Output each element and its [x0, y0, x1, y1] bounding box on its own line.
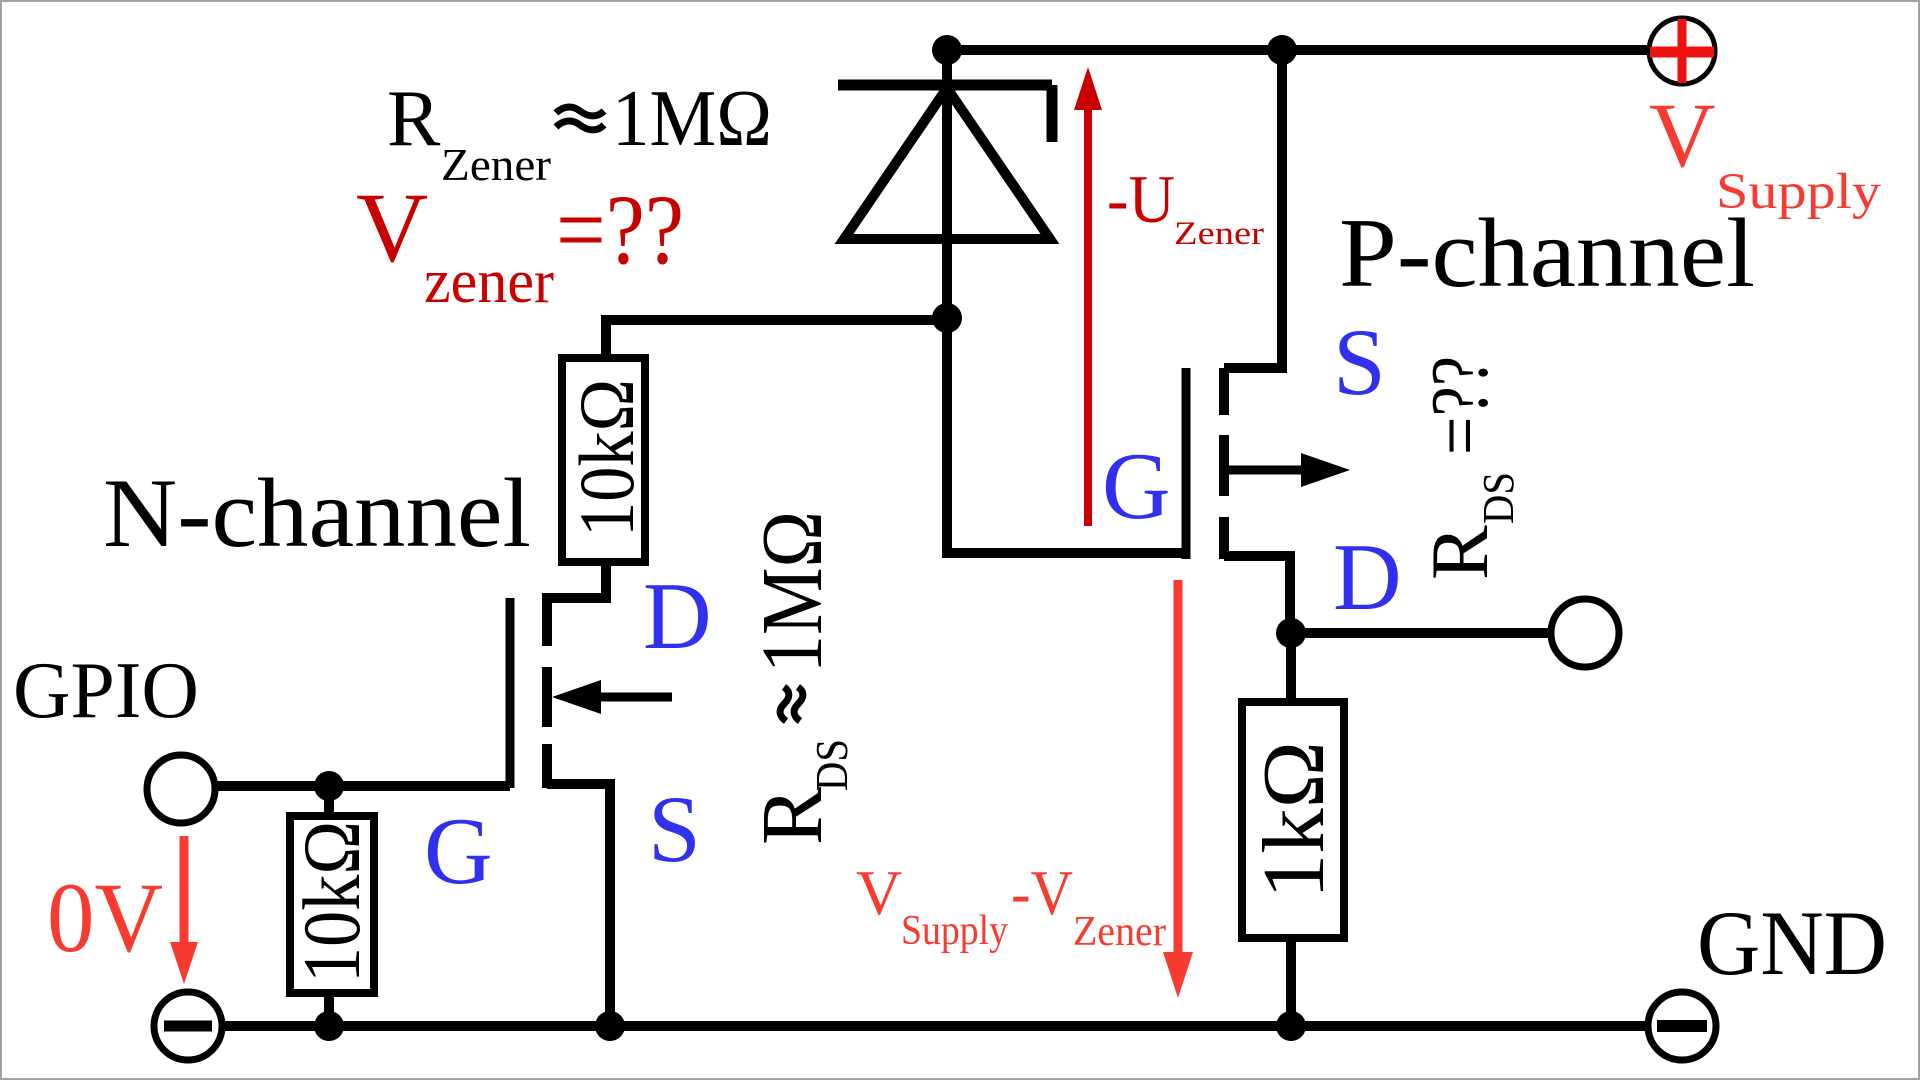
svg-text:P-channel: P-channel — [1339, 199, 1755, 308]
terminal: V_Supply plus circle — [1649, 18, 1715, 84]
N-MOSFET Q1: body arrow pointing into channel — [552, 680, 672, 714]
zener diode D1: anode triangle — [844, 88, 1050, 239]
svg-text:S: S — [648, 776, 701, 882]
svg-text:S: S — [1333, 309, 1386, 415]
wire: top supply rail — [947, 45, 1648, 55]
label R_DS=?? rotated — [1414, 356, 1523, 580]
svg-text:10kΩ: 10kΩ — [563, 379, 650, 537]
wire: junction to R2 top — [324, 786, 334, 816]
svg-text:R: R — [387, 75, 441, 163]
wire: R2 bottom to ground rail — [324, 993, 334, 1026]
resistor R2 10kOhm (gate pulldown): body — [290, 816, 374, 993]
label V_zener=?? — [356, 172, 684, 316]
svg-text:GPIO: GPIO — [13, 645, 199, 735]
wire: GPIO terminal to N-MOSFET gate — [215, 781, 510, 791]
resistor R3 value label 1kOhm — [1246, 741, 1343, 899]
svg-text:G: G — [424, 798, 493, 904]
label R_DS approx 1MOhm rotated — [743, 739, 857, 845]
wire: R1 top to zener node — [606, 320, 947, 356]
N-MOSFET Q1: channel dashed — [542, 593, 552, 788]
svg-text:D: D — [1333, 524, 1402, 630]
node: R3 at ground rail — [1276, 1011, 1306, 1041]
terminal: GPIO input circle — [147, 755, 215, 823]
label V_Supply-V_Zener — [856, 857, 1166, 955]
label V_Supply — [1649, 84, 1882, 220]
terminal: GND minus circle — [1648, 992, 1716, 1060]
terminal: output circle — [1551, 599, 1619, 667]
svg-text:R: R — [743, 787, 840, 845]
arrow: 0V GPIO voltage red down — [170, 836, 198, 984]
svg-text:=??: =?? — [1414, 356, 1505, 455]
wire: zener vertical from supply rail — [942, 50, 952, 318]
node: P-drain output junction — [1276, 618, 1306, 648]
svg-text:R: R — [1414, 525, 1505, 580]
svg-text:Zener: Zener — [441, 140, 551, 190]
P-MOSFET Q2: channel dashed — [1219, 368, 1229, 559]
wire: R1 bottom to N-MOSFET drain step — [547, 562, 606, 598]
node: N-source at ground rail — [595, 1011, 625, 1041]
svg-text:-V: -V — [1011, 857, 1073, 928]
resistor R1 10kOhm (N-drain pull-up): body — [562, 358, 645, 562]
wire: R3 bottom to ground rail — [1286, 938, 1296, 1026]
svg-text:=??: =?? — [556, 174, 684, 285]
svg-text:0V: 0V — [47, 862, 163, 973]
arrow: V_Supply minus V_Zener red down — [1163, 580, 1193, 998]
P-MOSFET Q2: drain step — [1224, 556, 1290, 633]
resistor R2 value label 10kOhm — [286, 821, 377, 983]
svg-text:DS: DS — [806, 739, 857, 791]
svg-text:D: D — [643, 563, 712, 669]
zener diode D1: cathode bar — [838, 85, 1052, 142]
N-MOSFET Q1: gate bar — [506, 598, 515, 788]
wire: ground rail — [222, 1021, 1651, 1031]
svg-text:DS: DS — [1474, 472, 1523, 524]
node: zener anode junction — [932, 303, 962, 333]
terminal: GPIO-side minus circle — [154, 992, 222, 1060]
svg-text:V: V — [1649, 84, 1715, 186]
node: gate wire / pulldown junction — [314, 771, 344, 801]
svg-text:Supply: Supply — [901, 908, 1008, 954]
resistor R1 value label 10kOhm — [563, 379, 650, 537]
svg-text:zener: zener — [424, 248, 554, 316]
svg-text:Supply: Supply — [1716, 164, 1882, 220]
svg-text:G: G — [1102, 433, 1171, 539]
P-MOSFET Q2: source step up to supply rail — [1224, 50, 1282, 368]
wire: drain node to output terminal — [1291, 628, 1551, 638]
wire: zener anode down and right to P-MOSFET gate — [947, 318, 1190, 553]
svg-text:GND: GND — [1697, 892, 1887, 994]
arrow: -U_Zener dark red up — [1074, 67, 1102, 526]
svg-text:-U: -U — [1107, 161, 1175, 237]
P-MOSFET Q2: gate bar — [1182, 368, 1191, 559]
label -U_Zener — [1107, 161, 1264, 252]
svg-text:1MΩ: 1MΩ — [743, 511, 840, 673]
svg-text:Zener: Zener — [1174, 216, 1264, 252]
wire: drain node to R3 top — [1286, 633, 1296, 702]
P-MOSFET Q2: body arrow pointing right — [1224, 453, 1350, 487]
svg-text:Zener: Zener — [1073, 909, 1166, 955]
N-MOSFET Q1: source step — [547, 784, 610, 1026]
svg-text:1MΩ: 1MΩ — [612, 75, 772, 163]
svg-text:V: V — [856, 857, 902, 928]
label R_Zener approx 1MOhm — [387, 75, 551, 190]
resistor R3 1kOhm (output load): body — [1242, 702, 1344, 938]
svg-text:N-channel: N-channel — [103, 459, 531, 568]
node: zener top junction — [932, 35, 962, 65]
node: R2 at ground rail — [314, 1011, 344, 1041]
svg-text:V: V — [356, 172, 428, 283]
node: P-MOSFET source junction — [1267, 35, 1297, 65]
svg-text:1kΩ: 1kΩ — [1246, 741, 1343, 899]
svg-text:10kΩ: 10kΩ — [286, 821, 377, 983]
